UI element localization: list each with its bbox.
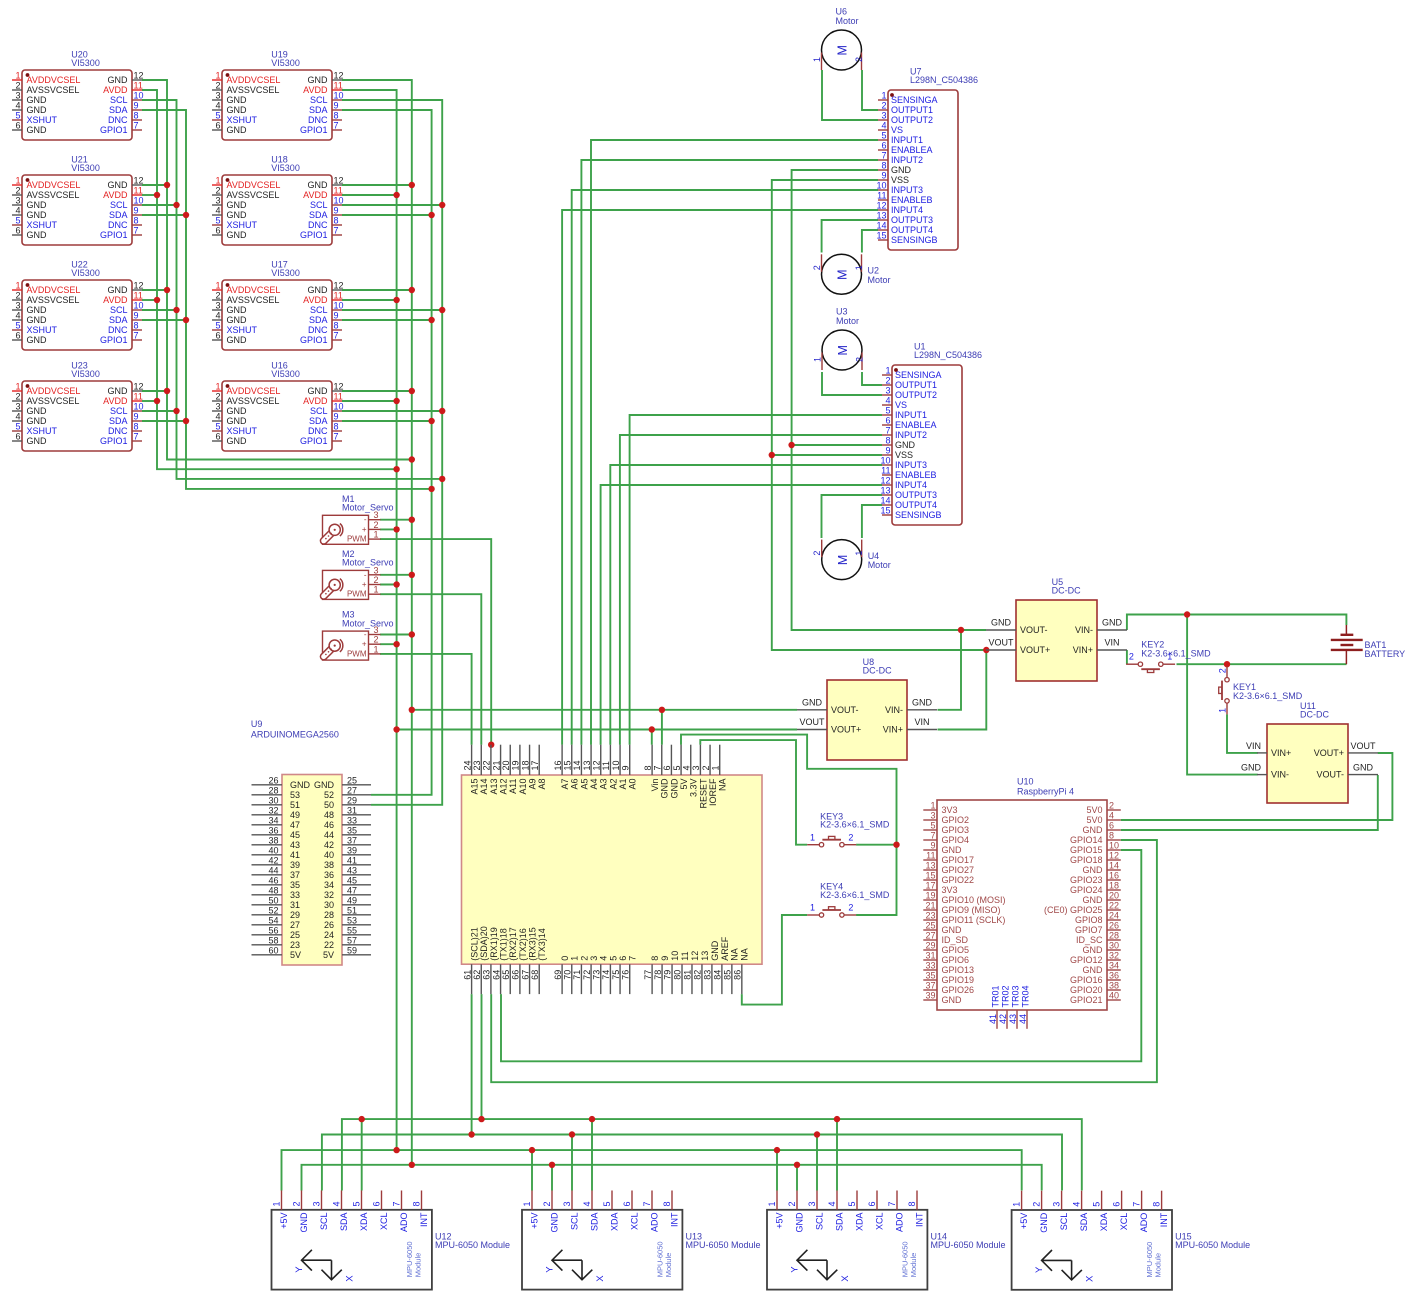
svg-text:GND: GND: [27, 210, 48, 220]
module U8 (DC-DC converter): [797, 657, 937, 760]
svg-text:30: 30: [268, 796, 278, 806]
svg-text:1: 1: [15, 281, 20, 291]
svg-text:GPIO16: GPIO16: [1070, 975, 1103, 985]
svg-text:32: 32: [1109, 951, 1119, 961]
junction right sensor bus: [393, 398, 399, 404]
junction left sensor bus: [164, 287, 170, 293]
svg-text:25: 25: [925, 921, 935, 931]
wire U21 AVDD to bus: [142, 194, 157, 196]
svg-text:SDA: SDA: [109, 416, 128, 426]
svg-text:1: 1: [15, 176, 20, 186]
svg-text:43: 43: [1008, 1014, 1018, 1024]
svg-text:PWM: PWM: [347, 535, 367, 544]
svg-text:INPUT4: INPUT4: [891, 205, 923, 215]
svg-text:Motor_Servo: Motor_Servo: [342, 503, 394, 513]
motor U6: [812, 7, 864, 71]
svg-text:2: 2: [848, 832, 853, 842]
wire KEY2 pin1 to BAT1 -: [1177, 663, 1347, 665]
svg-text:2: 2: [292, 1201, 302, 1206]
svg-text:10: 10: [334, 301, 344, 311]
svg-text:GPIO1: GPIO1: [100, 125, 128, 135]
svg-text:81: 81: [683, 970, 693, 980]
svg-text:NA: NA: [730, 948, 740, 961]
svg-text:GND: GND: [802, 697, 823, 707]
svg-text:GPIO18: GPIO18: [1070, 855, 1103, 865]
svg-text:14: 14: [1109, 861, 1119, 871]
svg-text:GPIO1: GPIO1: [300, 230, 328, 240]
svg-text:VOUT: VOUT: [988, 638, 1014, 648]
svg-text:AVDD: AVDD: [103, 190, 128, 200]
svg-text:VSS: VSS: [895, 450, 913, 460]
svg-text:5: 5: [15, 422, 20, 432]
svg-text:SDA: SDA: [835, 1213, 845, 1232]
svg-text:Y: Y: [545, 1266, 556, 1273]
svg-text:10: 10: [134, 301, 144, 311]
svg-text:PWM: PWM: [347, 590, 367, 599]
svg-text:SCL: SCL: [110, 95, 128, 105]
svg-text:1: 1: [215, 281, 220, 291]
svg-text:DNC: DNC: [108, 220, 128, 230]
svg-text:GND: GND: [227, 200, 248, 210]
svg-text:11: 11: [134, 291, 143, 301]
svg-text:TR02: TR02: [1000, 985, 1010, 1007]
svg-text:1: 1: [813, 357, 823, 362]
wire U14 pin drop: [796, 1165, 798, 1191]
svg-text:41: 41: [347, 856, 357, 866]
svg-text:AVDD: AVDD: [303, 295, 328, 305]
svg-text:1: 1: [570, 956, 580, 961]
svg-text:86: 86: [733, 970, 743, 980]
svg-text:5: 5: [215, 321, 220, 331]
svg-text:39: 39: [290, 860, 300, 870]
svg-text:Y: Y: [1034, 1266, 1045, 1273]
svg-text:8: 8: [412, 1201, 422, 1206]
svg-text:GND: GND: [27, 200, 48, 210]
svg-text:A15: A15: [470, 779, 480, 795]
svg-text:11: 11: [601, 761, 611, 770]
svg-text:XSHUT: XSHUT: [27, 426, 58, 436]
svg-text:DNC: DNC: [108, 115, 128, 125]
svg-text:29: 29: [290, 910, 300, 920]
svg-text:2: 2: [373, 520, 378, 530]
svg-text:35: 35: [347, 826, 357, 836]
svg-text:AVSSVCSEL: AVSSVCSEL: [27, 295, 80, 305]
svg-text:GPIO27: GPIO27: [942, 865, 975, 875]
svg-text:12: 12: [134, 382, 144, 392]
svg-text:GPIO7: GPIO7: [1075, 925, 1103, 935]
svg-text:17: 17: [530, 760, 540, 770]
svg-text:7: 7: [334, 331, 339, 341]
svg-text:AVDDVCSEL: AVDDVCSEL: [27, 75, 81, 85]
wire U6 pin2 to U7 OUTPUT1: [862, 70, 878, 110]
svg-text:9: 9: [334, 311, 339, 321]
svg-text:18: 18: [520, 760, 530, 770]
svg-text:12: 12: [134, 71, 144, 81]
svg-text:K2-3.6×6.1_SMD: K2-3.6×6.1_SMD: [820, 890, 890, 900]
servo M3 (Motor_Servo): [323, 610, 394, 661]
svg-text:SDA: SDA: [109, 315, 128, 325]
svg-text:7: 7: [930, 831, 935, 841]
svg-text:DNC: DNC: [108, 426, 128, 436]
wire U17 GND to bus: [342, 289, 412, 291]
wire U1 GND stub wire: [792, 444, 882, 446]
svg-text:AVSSVCSEL: AVSSVCSEL: [27, 396, 80, 406]
wire net SDA left sensor bus: [142, 110, 432, 489]
svg-text:XDA: XDA: [610, 1213, 620, 1232]
svg-text:43: 43: [290, 840, 300, 850]
junction KEY3 pin2 junction: [893, 842, 899, 848]
svg-text:GPIO17: GPIO17: [942, 855, 975, 865]
svg-text:Motor: Motor: [868, 560, 891, 570]
wire U7 INPUT4 - Arduino A7: [562, 210, 878, 745]
svg-text:GND: GND: [942, 925, 963, 935]
svg-text:47: 47: [290, 820, 300, 830]
svg-text:31: 31: [925, 951, 935, 961]
wire U7 INPUT1 - Arduino A4: [591, 140, 878, 745]
svg-text:SCL: SCL: [570, 1213, 580, 1231]
svg-text:38: 38: [268, 836, 278, 846]
svg-text:4: 4: [681, 765, 691, 770]
svg-text:12: 12: [591, 760, 601, 770]
svg-text:8: 8: [134, 216, 139, 226]
svg-text:5: 5: [608, 956, 618, 961]
junction U1 VSS junction: [769, 452, 775, 458]
svg-text:SDA: SDA: [109, 105, 128, 115]
wire U1 INPUT4 - Arduino A3: [601, 485, 882, 745]
svg-text:AVDDVCSEL: AVDDVCSEL: [227, 285, 281, 295]
junction U14 bus junction: [774, 1147, 780, 1153]
svg-text:VOUT-: VOUT-: [831, 705, 859, 715]
svg-text:VI5300: VI5300: [271, 58, 300, 68]
svg-text:M: M: [836, 269, 850, 279]
svg-text:8: 8: [881, 161, 886, 171]
junction left sensor bus: [173, 307, 179, 313]
wire U14 pin drop: [816, 1135, 818, 1191]
svg-text:6: 6: [622, 1201, 632, 1206]
svg-text:26: 26: [324, 920, 334, 930]
MCU U9 (ARDUINOMEGA2560) pin header 25-60: [252, 775, 372, 966]
junction U12 XDA junction: [359, 1116, 365, 1122]
svg-text:40: 40: [324, 850, 334, 860]
wire U7 INPUT3 - Arduino A6: [572, 190, 878, 745]
svg-text:9: 9: [885, 446, 890, 456]
svg-text:7: 7: [334, 226, 339, 236]
svg-text:Module: Module: [909, 1253, 918, 1278]
svg-text:GND: GND: [895, 440, 916, 450]
junction U1 GND junction: [788, 442, 794, 448]
svg-text:VS: VS: [895, 400, 907, 410]
svg-text:9: 9: [334, 101, 339, 111]
junction right sensor bus: [409, 182, 415, 188]
svg-text:GPIO1: GPIO1: [300, 335, 328, 345]
svg-text:48: 48: [268, 886, 278, 896]
svg-text:XSHUT: XSHUT: [227, 426, 258, 436]
svg-text:53: 53: [347, 916, 357, 926]
IC U23 (VI5300 ToF sensor): [12, 360, 144, 451]
svg-text:9: 9: [334, 412, 339, 422]
wire net +5V bottom bus: [282, 1150, 1022, 1190]
svg-text:6: 6: [662, 765, 672, 770]
svg-text:SDA: SDA: [309, 105, 328, 115]
svg-text:40: 40: [268, 846, 278, 856]
IC U21 (VI5300 ToF sensor): [12, 154, 144, 245]
svg-text:38: 38: [1109, 981, 1119, 991]
svg-text:12: 12: [1109, 851, 1119, 861]
svg-text:+5V: +5V: [1019, 1213, 1029, 1229]
svg-text:24: 24: [324, 930, 334, 940]
svg-text:21: 21: [925, 901, 935, 911]
svg-text:1: 1: [272, 1201, 282, 1206]
svg-text:XDA: XDA: [359, 1213, 369, 1232]
svg-text:GND: GND: [227, 230, 248, 240]
svg-text:ENABLEA: ENABLEA: [891, 145, 933, 155]
wire M1 pin3 GND: [380, 519, 412, 521]
svg-text:GND: GND: [912, 697, 933, 707]
wire U8 VIN- from GND line: [938, 630, 962, 710]
svg-text:10: 10: [880, 456, 890, 466]
svg-text:53: 53: [290, 790, 300, 800]
svg-text:8: 8: [907, 1201, 917, 1206]
wire U3 pin1 to U1 OUTPUT2: [822, 372, 882, 395]
svg-text:7: 7: [134, 432, 139, 442]
junction right sensor bus: [393, 297, 399, 303]
svg-text:11: 11: [334, 186, 343, 196]
junction right sensor bus: [439, 307, 445, 313]
svg-text:+: +: [362, 525, 367, 534]
svg-text:14: 14: [572, 760, 582, 770]
svg-text:38: 38: [324, 860, 334, 870]
svg-text:A12: A12: [498, 779, 508, 795]
svg-text:5: 5: [215, 111, 220, 121]
svg-text:A9: A9: [527, 779, 537, 790]
svg-text:32: 32: [324, 890, 334, 900]
svg-text:3: 3: [691, 765, 701, 770]
IC U7 (L298N_C504386 motor driver): [876, 67, 978, 251]
svg-text:VS: VS: [891, 125, 903, 135]
svg-text:11: 11: [680, 951, 690, 960]
wire U5 VIN+ to KEY2: [1126, 650, 1128, 664]
svg-text:1: 1: [854, 265, 864, 270]
svg-text:12: 12: [134, 281, 144, 291]
svg-text:3V3: 3V3: [942, 805, 958, 815]
svg-text:X: X: [345, 1275, 356, 1282]
svg-text:37: 37: [347, 836, 357, 846]
svg-text:GND: GND: [227, 95, 248, 105]
svg-text:11: 11: [134, 81, 143, 91]
svg-text:1: 1: [215, 382, 220, 392]
svg-text:GND: GND: [942, 995, 963, 1005]
junction right sensor bus: [428, 212, 434, 218]
svg-text:2: 2: [15, 186, 20, 196]
svg-text:VIN-: VIN-: [1075, 625, 1093, 635]
svg-text:VSS: VSS: [891, 175, 909, 185]
svg-text:(TX2)16: (TX2)16: [518, 928, 528, 961]
svg-text:3: 3: [15, 196, 20, 206]
svg-text:XSHUT: XSHUT: [227, 220, 258, 230]
svg-text:L298N_C504386: L298N_C504386: [914, 350, 982, 360]
pushbutton KEY2 (K2-3.6x6.1_SMD): [1126, 640, 1211, 673]
svg-text:26: 26: [1109, 921, 1119, 931]
svg-text:-: -: [364, 630, 367, 639]
svg-text:9: 9: [334, 206, 339, 216]
junction right sensor bus: [393, 192, 399, 198]
svg-text:8: 8: [334, 321, 339, 331]
svg-text:17: 17: [925, 881, 935, 891]
svg-text:40: 40: [1109, 991, 1119, 1001]
svg-text:12: 12: [690, 951, 700, 961]
svg-text:INPUT4: INPUT4: [895, 480, 927, 490]
svg-text:VI5300: VI5300: [271, 268, 300, 278]
svg-text:83: 83: [703, 970, 713, 980]
battery BAT1: [1331, 625, 1405, 664]
svg-text:23: 23: [925, 911, 935, 921]
svg-text:GND: GND: [227, 305, 248, 315]
svg-text:22: 22: [324, 940, 334, 950]
svg-text:13: 13: [876, 211, 886, 221]
motor U3: [813, 307, 865, 371]
svg-text:36: 36: [268, 826, 278, 836]
svg-text:X: X: [595, 1275, 606, 1282]
svg-text:5V: 5V: [679, 779, 689, 790]
svg-text:GND: GND: [290, 780, 311, 790]
svg-text:5: 5: [215, 422, 220, 432]
svg-text:GND: GND: [660, 778, 670, 799]
svg-text:(TX3)14: (TX3)14: [537, 928, 547, 961]
svg-text:29: 29: [347, 796, 357, 806]
wire U21 SDA to bus: [142, 214, 186, 216]
svg-text:K2-3.6×6.1_SMD: K2-3.6×6.1_SMD: [1141, 649, 1211, 659]
svg-text:GND: GND: [710, 940, 720, 961]
svg-text:GND: GND: [550, 1212, 560, 1233]
junction left sensor bus: [164, 388, 170, 394]
svg-text:A3: A3: [599, 779, 609, 790]
svg-text:29: 29: [925, 941, 935, 951]
svg-text:6: 6: [1112, 1202, 1122, 1207]
svg-text:54: 54: [268, 916, 278, 926]
junction right sensor bus: [409, 287, 415, 293]
junction SDA20 junction: [478, 1116, 484, 1122]
svg-text:GPIO6: GPIO6: [942, 955, 970, 965]
wire Arduino RESET to KEY3 pin1: [700, 740, 807, 845]
svg-text:11: 11: [134, 392, 143, 402]
junction M3 GND: [409, 631, 415, 637]
svg-text:39: 39: [925, 991, 935, 1001]
svg-text:AVSSVCSEL: AVSSVCSEL: [227, 295, 280, 305]
svg-text:13: 13: [925, 861, 935, 871]
svg-text:37: 37: [290, 870, 300, 880]
svg-text:(TX1)18: (TX1)18: [498, 928, 508, 961]
svg-text:30: 30: [1109, 941, 1119, 951]
junction U13 bus junction: [549, 1162, 555, 1168]
svg-text:VIN: VIN: [914, 717, 929, 727]
svg-text:1: 1: [373, 644, 378, 654]
svg-text:35: 35: [925, 971, 935, 981]
svg-text:OUTPUT4: OUTPUT4: [895, 500, 937, 510]
wire net VOUT U7/U1 VSS to U5 VOUT+: [772, 180, 986, 650]
svg-text:10: 10: [134, 91, 144, 101]
svg-text:11: 11: [134, 186, 143, 196]
svg-text:6: 6: [215, 432, 220, 442]
svg-text:A6: A6: [570, 779, 580, 790]
svg-text:74: 74: [601, 970, 611, 980]
junction U14 bus junction: [834, 1116, 840, 1122]
svg-text:28: 28: [268, 786, 278, 796]
svg-text:84: 84: [713, 970, 723, 980]
svg-text:(RX3)15: (RX3)15: [527, 927, 537, 961]
svg-text:7: 7: [334, 432, 339, 442]
svg-text:GND: GND: [27, 436, 48, 446]
svg-text:INPUT1: INPUT1: [895, 410, 927, 420]
svg-text:5: 5: [930, 821, 935, 831]
svg-text:4: 4: [15, 206, 20, 216]
svg-text:6: 6: [15, 226, 20, 236]
svg-text:8: 8: [650, 956, 660, 961]
svg-text:42: 42: [324, 840, 334, 850]
svg-text:AVDDVCSEL: AVDDVCSEL: [27, 180, 81, 190]
svg-text:MPU-6050 Module: MPU-6050 Module: [1175, 1240, 1250, 1250]
wire Arduino SDA20 to bus: [481, 994, 483, 1119]
junction left sensor bus: [173, 408, 179, 414]
svg-text:55: 55: [347, 926, 357, 936]
junction U13 bus junction: [529, 1147, 535, 1153]
svg-text:(RX1)19: (RX1)19: [489, 927, 499, 961]
svg-text:9: 9: [881, 171, 886, 181]
svg-text:ARDUINOMEGA2560: ARDUINOMEGA2560: [251, 729, 339, 739]
svg-text:GND: GND: [27, 105, 48, 115]
svg-text:INPUT3: INPUT3: [895, 460, 927, 470]
svg-text:26: 26: [268, 776, 278, 786]
svg-text:VIN+: VIN+: [1073, 645, 1093, 655]
svg-text:59: 59: [347, 946, 357, 956]
svg-text:GPIO13: GPIO13: [942, 965, 975, 975]
module U5 (DC-DC converter): [986, 577, 1127, 681]
svg-text:15: 15: [562, 760, 572, 770]
svg-text:OUTPUT1: OUTPUT1: [895, 380, 937, 390]
svg-text:10: 10: [1109, 841, 1119, 851]
svg-text:2: 2: [854, 57, 864, 62]
junction KEY1 junction: [1224, 661, 1230, 667]
svg-text:50: 50: [324, 800, 334, 810]
svg-text:3: 3: [15, 402, 20, 412]
wire net SCL to Arduino pin29: [342, 100, 442, 805]
svg-text:2: 2: [855, 357, 865, 362]
svg-text:50: 50: [268, 896, 278, 906]
svg-text:25: 25: [347, 776, 357, 786]
IC U18 (VI5300 ToF sensor): [212, 154, 344, 245]
svg-text:2: 2: [15, 392, 20, 402]
svg-text:Motor: Motor: [836, 16, 859, 26]
svg-text:A5: A5: [579, 779, 589, 790]
svg-text:GPIO19: GPIO19: [942, 975, 975, 985]
wire Arduino 5V to KEY3/KEY4: [681, 735, 897, 915]
wire U23 AVDD to bus: [142, 400, 157, 402]
wire U11 VOUT+ to RPi 5V0: [1121, 753, 1393, 820]
svg-text:GND: GND: [27, 315, 48, 325]
svg-text:Vin: Vin: [650, 779, 660, 792]
svg-text:A11: A11: [508, 779, 518, 794]
junction M2 GND: [409, 572, 415, 578]
svg-text:XDA: XDA: [1099, 1213, 1109, 1232]
svg-text:36: 36: [324, 870, 334, 880]
wire net GND left sensor bus: [142, 80, 412, 460]
svg-text:XCL: XCL: [379, 1213, 389, 1231]
svg-text:A1: A1: [618, 779, 628, 790]
junction M3 +5V: [393, 641, 399, 647]
svg-text:INPUT2: INPUT2: [891, 155, 923, 165]
svg-text:VIN: VIN: [1246, 741, 1261, 751]
svg-text:INT: INT: [915, 1212, 925, 1227]
svg-text:AVDDVCSEL: AVDDVCSEL: [227, 75, 281, 85]
